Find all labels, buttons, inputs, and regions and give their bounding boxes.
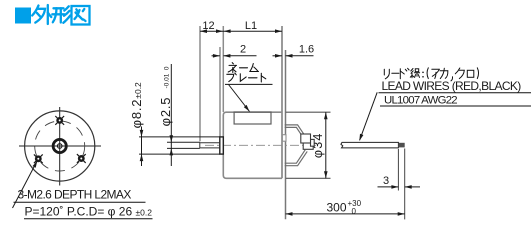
motor body	[223, 112, 282, 178]
svg-text:0: 0	[163, 66, 170, 70]
boss	[220, 137, 224, 154]
title kanji 外形図	[32, 5, 89, 25]
PCD dashed circle	[35, 121, 85, 171]
crosshair vertical	[59, 107, 61, 186]
dim 12 / L1	[200, 29, 282, 33]
dim 1.6	[273, 54, 314, 58]
terminal assembly	[301, 134, 314, 149]
bracket tab	[282, 135, 286, 142]
phi34 extension lines	[286, 111, 331, 113]
svg-text:P=120˚ P.C.D= φ 26 ±0.2: P=120˚ P.C.D= φ 26 ±0.2	[25, 204, 153, 218]
svg-text:300: 300	[326, 201, 346, 215]
lead wires label JP リード線：（アカ，クロ）	[384, 68, 478, 81]
wire stripped tip	[398, 143, 404, 148]
svg-text:-0.01: -0.01	[163, 73, 170, 88]
phi8.2 extension lines	[139, 136, 220, 138]
dim 3	[378, 185, 421, 189]
svg-text:1.6: 1.6	[299, 44, 314, 56]
svg-text:L1: L1	[245, 20, 257, 32]
outer circle	[25, 111, 95, 181]
extension line body front face	[222, 26, 224, 112]
dim 300	[286, 212, 405, 216]
svg-text:2: 2	[240, 44, 246, 56]
leader to lower-left hole	[13, 161, 37, 208]
hub ring	[53, 139, 66, 152]
FRONT VIEW	[13, 107, 102, 208]
center axis	[205, 144, 318, 146]
hole top	[55, 116, 64, 125]
name plate	[234, 112, 271, 124]
crosshair horizontal	[19, 145, 101, 147]
title square	[15, 8, 31, 24]
phi2.5 extension lines	[167, 141, 200, 143]
name plate label ネーム	[228, 63, 258, 73]
phi2.5 dimension	[170, 64, 174, 166]
extension line rear plate	[285, 50, 287, 219]
extension line shaft tip	[199, 26, 201, 141]
hub inner circle	[57, 144, 62, 149]
svg-text:φ2.5: φ2.5	[158, 97, 173, 127]
svg-text:0: 0	[352, 207, 357, 216]
extension line body rear face	[281, 26, 283, 178]
svg-text:UL1007 AWG22: UL1007 AWG22	[384, 95, 457, 107]
wire leader	[360, 92, 378, 140]
hole lower-left	[34, 154, 43, 163]
name plate underline	[225, 83, 273, 85]
svg-text:12: 12	[202, 20, 214, 32]
dim 2	[212, 54, 257, 58]
svg-text:3-M2.6 DEPTH L2MAX: 3-M2.6 DEPTH L2MAX	[18, 187, 132, 201]
dim 3 extension lines	[397, 149, 399, 191]
extension line boss front	[219, 47, 221, 137]
lead wire bar	[341, 142, 399, 148]
svg-text:3: 3	[383, 175, 389, 187]
phi34 dimension	[324, 112, 328, 178]
name plate leader	[229, 85, 250, 112]
hole lower-right	[77, 154, 86, 163]
svg-text:LEAD WIRES (RED,BLACK): LEAD WIRES (RED,BLACK)	[382, 79, 522, 93]
phi8.2 dimension	[140, 127, 144, 167]
rear bracket wireform	[285, 125, 308, 166]
shaft	[200, 143, 220, 148]
name plate label プレート	[227, 73, 266, 82]
